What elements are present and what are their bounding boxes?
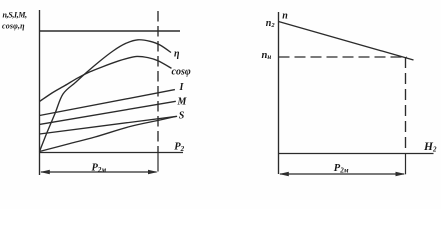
svg-text:nн: nн [262, 50, 272, 61]
right chart dashed horizontal at n_n [279, 56, 408, 58]
svg-text:S: S [179, 110, 185, 121]
right chart dimension line P2M [280, 173, 404, 175]
curve cos-phi [40, 56, 172, 101]
right chart dashed vertical at P2M [405, 57, 407, 154]
right dimension right arrowhead [396, 172, 406, 176]
left chart x-axis (P2 axis) [39, 152, 183, 154]
left dimension left arrowhead [40, 170, 50, 174]
svg-text:M: M [177, 97, 188, 108]
left chart top horizontal limit line [40, 30, 181, 32]
left chart extension line below x-axis at P2M [157, 152, 159, 172]
svg-text:η: η [174, 49, 180, 60]
right dimension left arrowhead [279, 172, 289, 176]
svg-text:P2м: P2м [92, 163, 107, 174]
svg-text:n: n [282, 10, 288, 21]
svg-text:cosφ: cosφ [172, 67, 191, 78]
svg-text:P2м: P2м [334, 163, 349, 174]
right chart extension line below x-axis [405, 154, 407, 175]
svg-text:P2: P2 [174, 142, 184, 153]
left dimension right arrowhead [148, 170, 158, 174]
curve S (lower strand from origin) [40, 117, 176, 152]
curve eta [40, 40, 172, 152]
line M [40, 101, 176, 124]
svg-text:n2: n2 [266, 18, 276, 29]
left chart y-axis [39, 10, 41, 175]
right chart y-axis (n axis) [278, 12, 280, 174]
line S (upper strand from axis) [40, 116, 178, 134]
right chart x-axis (H2 axis) [278, 153, 434, 155]
left chart dashed vertical line at P2M [157, 11, 159, 152]
svg-text:H2: H2 [423, 141, 437, 153]
left chart dimension line P2M [41, 171, 157, 173]
line I [40, 90, 175, 116]
svg-text:I: I [179, 82, 185, 93]
svg-text:cosφ,η: cosφ,η [2, 21, 25, 30]
right chart speed line n(P2) [279, 22, 414, 61]
svg-text:n,S,I,M,: n,S,I,M, [3, 11, 28, 20]
